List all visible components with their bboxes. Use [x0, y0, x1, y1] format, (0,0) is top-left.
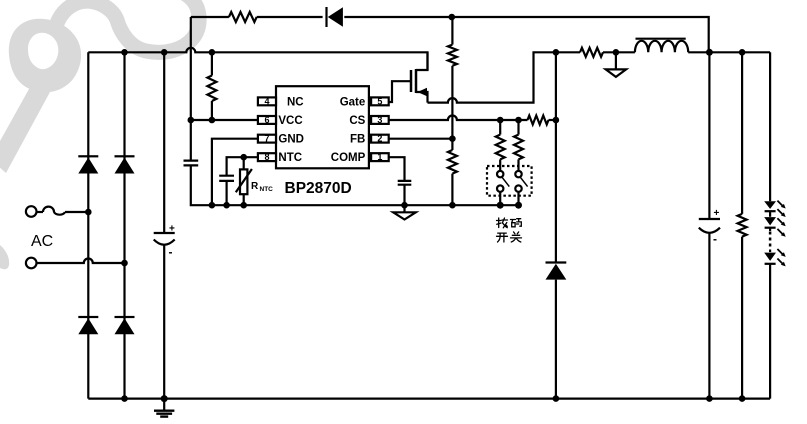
svg-text:6: 6	[264, 115, 269, 125]
svg-text:4: 4	[264, 96, 269, 106]
svg-text:GND: GND	[278, 134, 304, 146]
svg-text:BP2870D: BP2870D	[285, 180, 352, 197]
svg-text:CS: CS	[349, 115, 365, 127]
svg-text:-: -	[169, 245, 173, 259]
svg-text:NC: NC	[287, 96, 304, 108]
svg-text:FB: FB	[350, 134, 365, 146]
svg-text:2: 2	[377, 134, 382, 144]
svg-text:NTC: NTC	[278, 152, 302, 164]
svg-text:Gate: Gate	[340, 96, 366, 108]
svg-text:8: 8	[264, 152, 269, 162]
svg-text:3: 3	[377, 115, 382, 125]
svg-text:VCC: VCC	[278, 115, 302, 127]
svg-text:+: +	[169, 224, 175, 235]
svg-text:COMP: COMP	[331, 152, 366, 164]
svg-text:7: 7	[264, 134, 269, 144]
svg-text:1: 1	[377, 152, 382, 162]
svg-text:AC: AC	[31, 233, 53, 250]
svg-text:-: -	[713, 232, 717, 246]
svg-text:+: +	[714, 208, 720, 219]
svg-text:R: R	[251, 181, 259, 192]
svg-text:NTC: NTC	[260, 186, 274, 193]
svg-text:5: 5	[377, 96, 382, 106]
